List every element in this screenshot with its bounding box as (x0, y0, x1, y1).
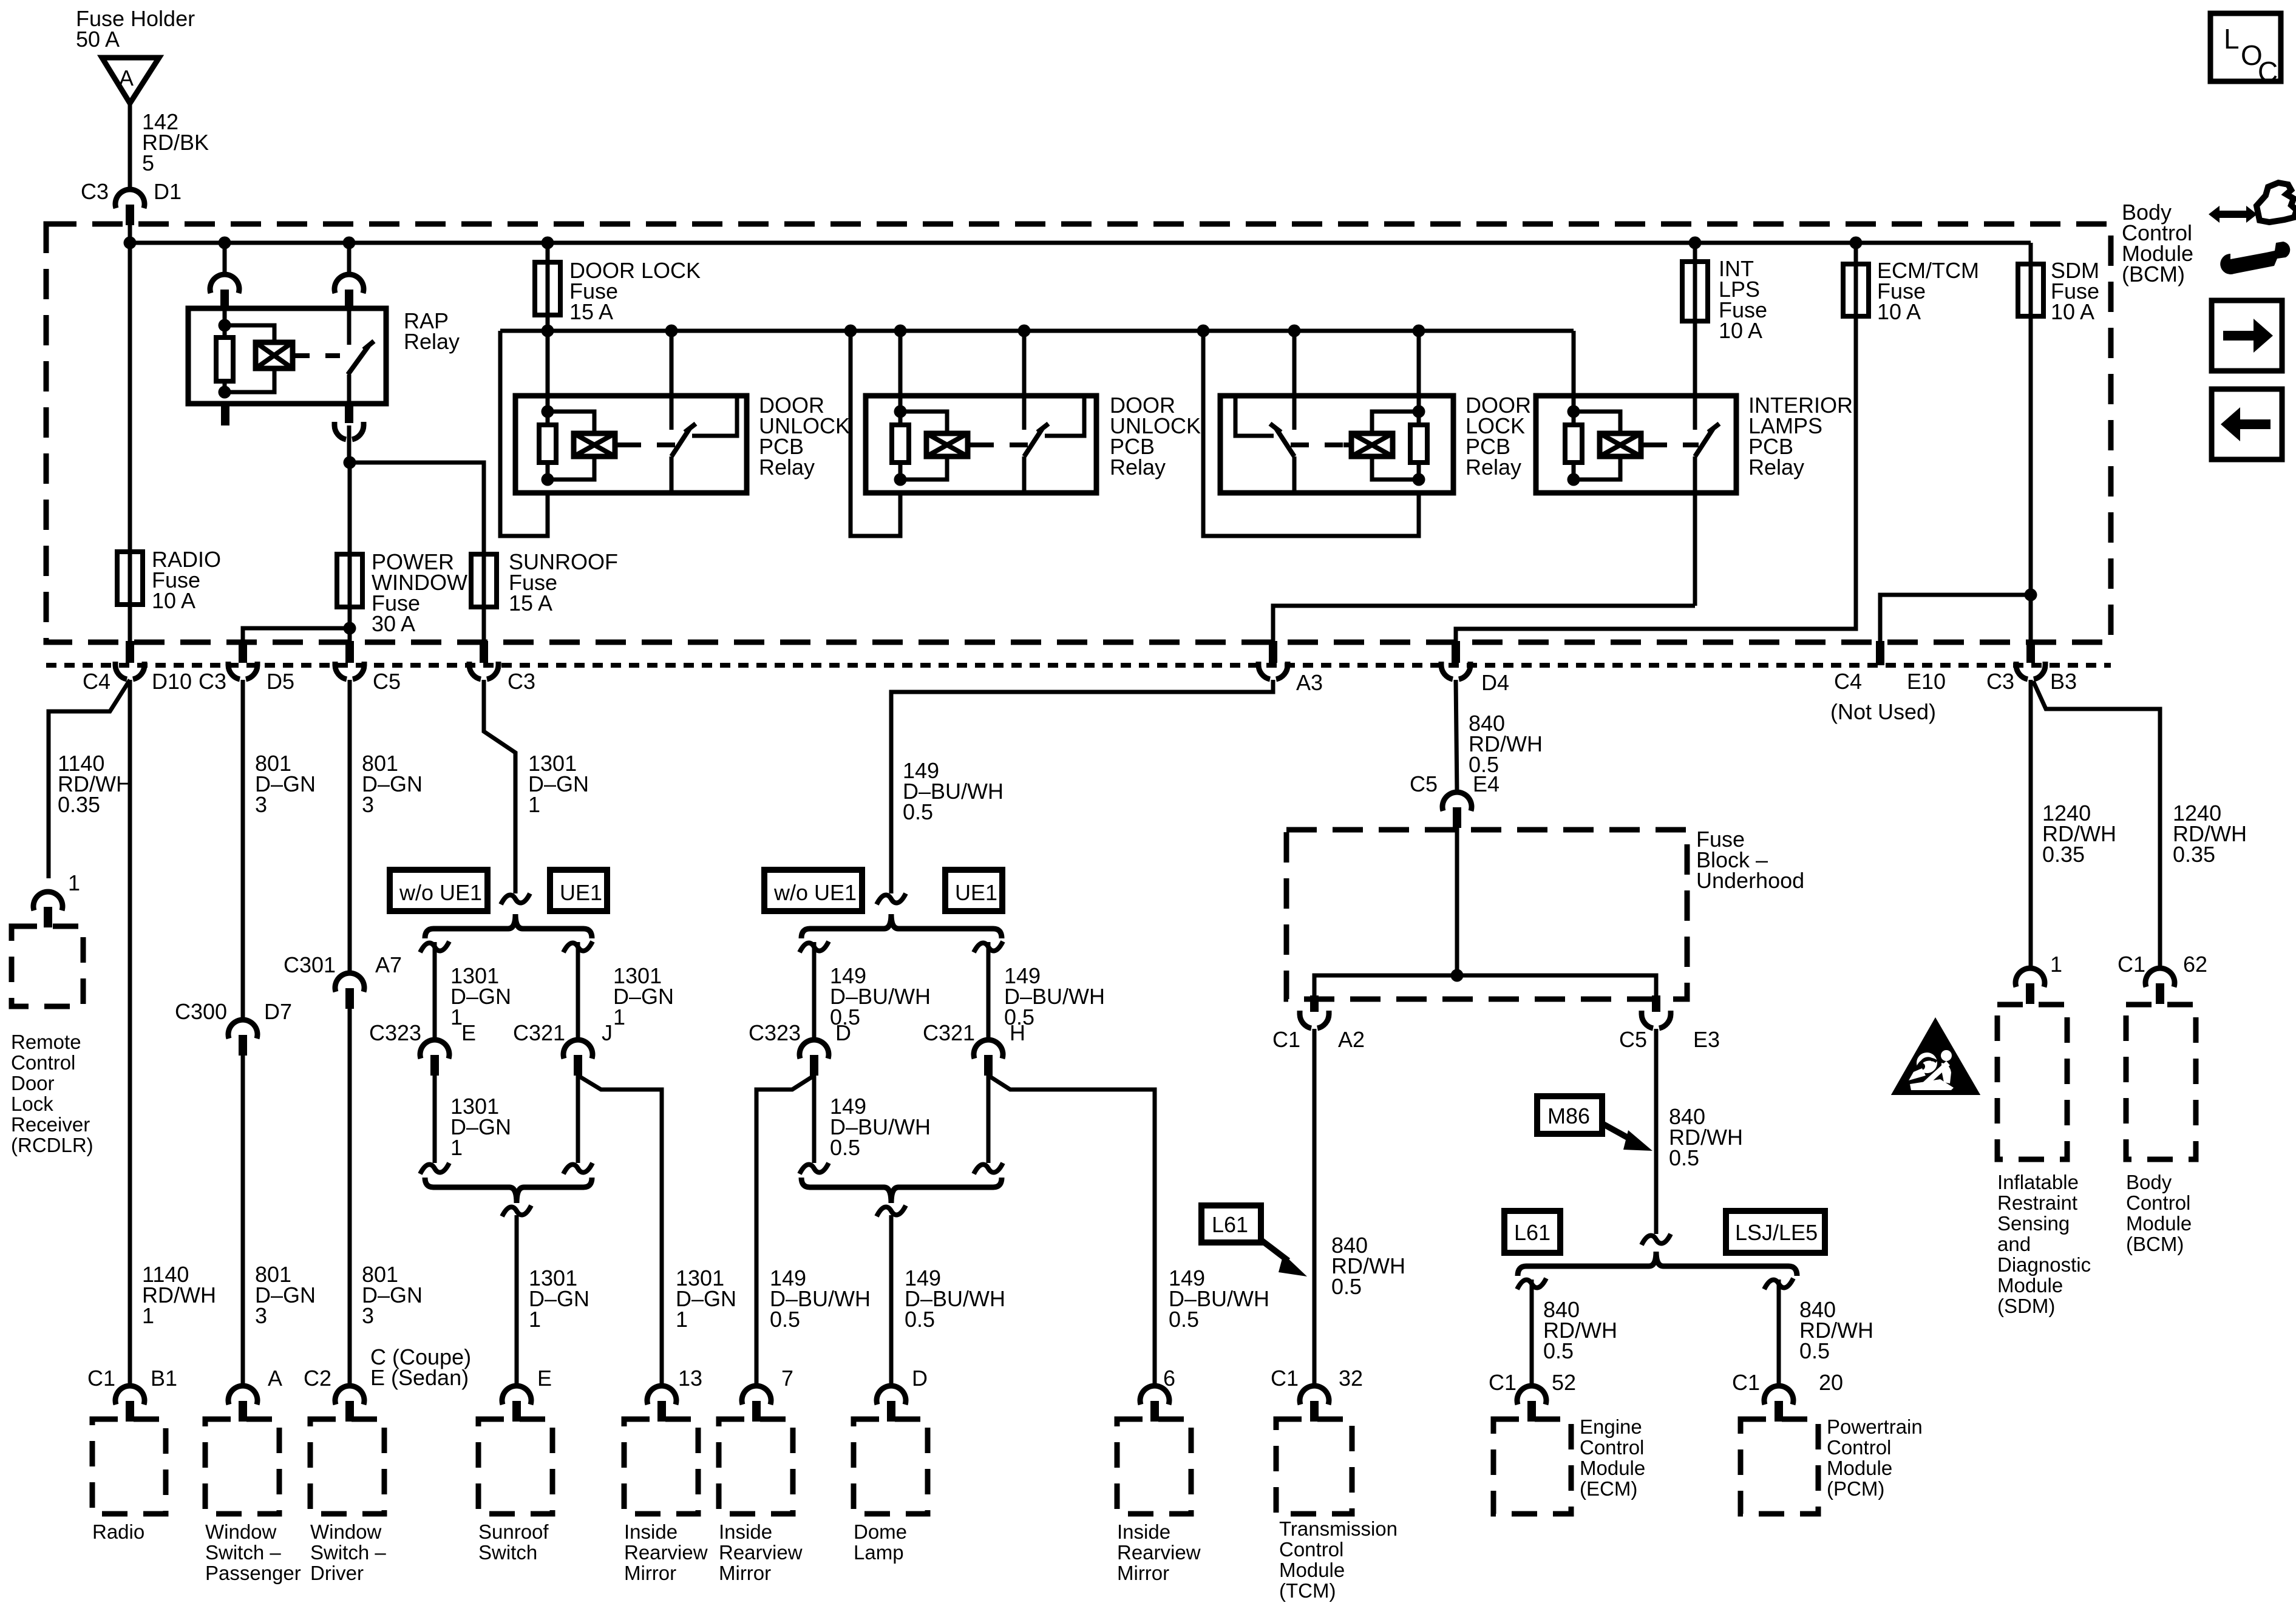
svg-text:1: 1 (450, 1135, 463, 1160)
connector Window (335, 1386, 364, 1405)
wire into RAP relay (223, 290, 227, 325)
back arrow box (2212, 389, 2282, 459)
svg-text:(TCM): (TCM) (1279, 1579, 1336, 1602)
svg-text:A2: A2 (1338, 1027, 1365, 1052)
POWER WINDOW fuse (337, 554, 362, 607)
break (1764, 1278, 1793, 1289)
svg-text:E: E (461, 1020, 476, 1045)
DOOR LOCK PCB relay 3 switch common (1292, 396, 1297, 430)
svg-text:Relay: Relay (404, 329, 460, 354)
DOOR UNLOCK PCB relay 2 coil top link (900, 412, 947, 433)
svg-text:30 A: 30 A (372, 611, 415, 636)
svg-text:62: 62 (2183, 952, 2207, 977)
wire bus1 to RAP coil connector (223, 243, 227, 275)
svg-text:E3: E3 (1693, 1027, 1720, 1052)
wire RADIO fuse to C4/D10 (128, 605, 132, 642)
break (877, 1205, 906, 1216)
svg-text:Driver: Driver (310, 1562, 364, 1584)
DOOR UNLOCK PCB relay 2 switch common (1022, 396, 1027, 430)
wire to sunroof switch (515, 1215, 519, 1386)
wire branch C323/D to mirror (756, 1076, 814, 1386)
svg-text:(PCM): (PCM) (1827, 1477, 1884, 1500)
bus2 end down to relay4 coil (1572, 331, 1576, 412)
DOOR LOCK PCB relay 3 switch output (1292, 456, 1297, 493)
svg-text:Remote: Remote (11, 1031, 81, 1053)
svg-text:C5: C5 (373, 669, 401, 694)
svg-text:C5: C5 (1410, 771, 1438, 796)
M86 arrow (1603, 1124, 1632, 1140)
svg-text:D4: D4 (1481, 670, 1509, 695)
svg-text:E10: E10 (1907, 669, 1946, 694)
svg-text:C321: C321 (923, 1020, 975, 1045)
svg-text:0.5: 0.5 (1331, 1274, 1362, 1299)
connector C321/J (563, 1040, 593, 1059)
wire bus1 to RADIO fuse (128, 243, 132, 552)
svg-text:Control: Control (11, 1051, 75, 1074)
svg-text:1: 1 (529, 1307, 541, 1332)
relay4 coil end (1572, 491, 1576, 495)
junction bus2 x=1401 (844, 325, 857, 337)
svg-text:C3: C3 (1986, 669, 2014, 694)
L61 arrow (1260, 1239, 1288, 1261)
DOOR UNLOCK PCB relay 2 coil top junction (894, 405, 907, 418)
svg-text:Rearview: Rearview (719, 1541, 803, 1564)
TCM box (1276, 1419, 1352, 1514)
svg-text:A: A (119, 66, 134, 90)
svg-text:Module: Module (1580, 1457, 1645, 1479)
connector TCM C1/32 (1300, 1386, 1329, 1405)
wire C1/A2 to TCM (1313, 1029, 1317, 1386)
wire into fuse block (1455, 807, 1459, 975)
wire SDM fuse to C3/B3 (2029, 316, 2033, 642)
wire w/o UE1 branch (433, 942, 437, 1040)
svg-text:A3: A3 (1296, 670, 1323, 695)
DOOR LOCK PCB relay 3 switch tick (1270, 424, 1281, 432)
svg-text:(SDM): (SDM) (1997, 1295, 2055, 1317)
wire DOOR LOCK fuse to relay1 coil (546, 315, 550, 412)
INTERIOR LAMPS PCB relay 4 coil resistor (1565, 425, 1582, 463)
connector BCM C1/62 (2145, 968, 2175, 987)
DOOR UNLOCK PCB relay 2 coil-switch dashed link (968, 442, 976, 447)
svg-text:C1: C1 (1732, 1370, 1760, 1395)
connector C3/D5 (239, 641, 247, 663)
svg-text:and: and (1997, 1233, 2031, 1255)
BCM dashed outline (46, 224, 2111, 642)
connector C301/A7 (335, 973, 364, 992)
svg-text:3: 3 (255, 1303, 267, 1328)
splice brace upper 2 (801, 914, 1002, 938)
junction bus2 x=902 (542, 325, 554, 337)
svg-text:Dome: Dome (854, 1520, 907, 1543)
svg-text:(ECM): (ECM) (1580, 1477, 1637, 1500)
RAP coil bottom junction (219, 386, 231, 399)
connector C300/D7 (228, 1020, 257, 1039)
break (502, 1205, 531, 1216)
connector PCM C1/20 (1764, 1386, 1793, 1405)
junction PW fuse split (344, 622, 356, 635)
svg-text:B1: B1 (151, 1366, 177, 1391)
relay2 coil return loop (851, 331, 900, 536)
svg-text:Sunroof: Sunroof (478, 1520, 549, 1543)
ECM box (1493, 1419, 1571, 1514)
splice break (501, 893, 530, 904)
svg-text:C300: C300 (175, 999, 227, 1024)
svg-text:Diagnostic: Diagnostic (1997, 1253, 2091, 1276)
connector C3/D1 (115, 189, 144, 208)
connector C5/E3 (1652, 995, 1660, 1012)
wire bus1 to RAP switch connector (347, 243, 352, 275)
DOOR LOCK PCB relay 3 coil bottom junction (1413, 473, 1425, 486)
wire C3/D5 down (241, 680, 245, 1020)
wire jog to C3/D5 (243, 628, 350, 642)
break (563, 1163, 593, 1174)
INTERIOR LAMPS PCB relay 4 switch tick (1708, 424, 1719, 432)
RAP relay box (188, 308, 386, 404)
svg-text:Control: Control (1580, 1436, 1644, 1459)
svg-text:(BCM): (BCM) (2126, 1233, 2184, 1255)
svg-text:3: 3 (255, 792, 267, 817)
BCM connector row dotted line (46, 663, 2111, 668)
svg-text:0.5: 0.5 (830, 1135, 860, 1160)
junction bus2 x=1982 (1197, 325, 1210, 337)
svg-text:Lock: Lock (11, 1093, 53, 1115)
car/service pictogram (2209, 206, 2257, 223)
svg-text:10 A: 10 A (1877, 299, 1921, 324)
svg-text:C3: C3 (508, 669, 535, 694)
connector Sunroof (502, 1386, 531, 1405)
DOOR UNLOCK PCB relay 2 switch hook to box top (1045, 396, 1084, 436)
wire B3 branch to BCM (2033, 681, 2160, 969)
SDM fuse (2018, 264, 2043, 316)
connector C4/D10 (126, 641, 134, 663)
wire relay4 output to A3 (1273, 606, 1695, 642)
svg-text:C3: C3 (81, 179, 109, 204)
DOOR UNLOCK PCB relay 1 switch output (670, 456, 674, 493)
option box LSJ/LE5 (1726, 1211, 1825, 1253)
svg-text:C1: C1 (1271, 1366, 1299, 1391)
wire to SUNROOF fuse (350, 463, 484, 554)
connector RCDLR pin 1 (33, 892, 63, 910)
svg-text:C1: C1 (2118, 952, 2145, 977)
wire C4/D10 to RCDLR (49, 680, 130, 878)
box Window Switch – Passenger (205, 1419, 279, 1514)
DOOR UNLOCK PCB relay 1 coil bottom junction (542, 473, 554, 486)
svg-text:Body: Body (2126, 1171, 2172, 1193)
wire bus2 to relay3 coil (1417, 331, 1421, 412)
svg-text:Mirror: Mirror (719, 1562, 771, 1584)
relay box INTERIOR LAMPS PCB relay 4 (1536, 396, 1736, 493)
break (563, 941, 593, 952)
connector C323/D (800, 1040, 829, 1059)
Fuse Block - Underhood box (1286, 830, 1687, 999)
svg-text:L61: L61 (1212, 1212, 1248, 1237)
PCM box (1741, 1419, 1818, 1514)
svg-text:Inflatable: Inflatable (1997, 1171, 2079, 1193)
connector C3 (sunroof) (480, 641, 488, 663)
INTERIOR LAMPS PCB relay 4 coil top junction (1567, 405, 1580, 418)
svg-text:E: E (537, 1366, 552, 1391)
wire below C323/E (433, 1055, 437, 1163)
svg-text:D5: D5 (267, 669, 294, 694)
svg-text:Inside: Inside (719, 1520, 772, 1543)
wire w/o UE1 branch (812, 942, 817, 1040)
svg-text:C301: C301 (284, 952, 336, 977)
connector C4/E10 stub (not used) (1876, 641, 1884, 665)
svg-text:Relay: Relay (1466, 455, 1521, 480)
svg-text:Transmission: Transmission (1279, 1517, 1398, 1540)
RAP switch output (347, 375, 352, 404)
break (800, 1163, 829, 1174)
wire bus2 to relay2 coil (898, 331, 903, 412)
DOOR LOCK PCB relay 3 switch blade (1276, 429, 1294, 456)
svg-text:C3: C3 (199, 669, 226, 694)
svg-text:Control: Control (2126, 1192, 2190, 1214)
INTERIOR LAMPS PCB relay 4 coil-switch dashed link (1641, 442, 1649, 447)
svg-text:A: A (268, 1366, 282, 1391)
relay3 coil return loop (1203, 331, 1419, 536)
wire RAP output down (347, 425, 352, 463)
svg-text:50 A: 50 A (76, 27, 120, 52)
svg-text:E (Sedan): E (Sedan) (370, 1365, 469, 1390)
svg-text:w/o UE1: w/o UE1 (773, 880, 857, 905)
svg-text:Powertrain: Powertrain (1827, 1415, 1923, 1438)
break (974, 941, 1003, 952)
svg-text:Receiver: Receiver (11, 1113, 90, 1136)
wire RAP switch common (347, 290, 352, 345)
DOOR LOCK PCB relay 3 coil-switch dashed link (1343, 442, 1351, 447)
junction bus2 x=1106 (665, 325, 678, 337)
INTERIOR LAMPS PCB relay 4 coil bottom link (1574, 456, 1620, 480)
connector C5 (345, 641, 354, 663)
svg-text:1: 1 (2050, 952, 2062, 977)
box Inside Rearview Mirror (624, 1419, 698, 1514)
svg-text:0.35: 0.35 (58, 792, 100, 817)
wire to PCM (1777, 1280, 1781, 1386)
option box UE1 (945, 870, 1002, 911)
box Radio (92, 1419, 166, 1514)
wire fuse holder to connector C3/D1 (128, 103, 132, 191)
wire into BCM (128, 205, 132, 243)
connector SDM pin 1 (2016, 968, 2045, 987)
junction RAP output split (344, 456, 356, 469)
svg-text:Sensing: Sensing (1997, 1212, 2070, 1235)
wire branch C321/H to mirror (988, 1076, 1155, 1386)
bus1 end down to SDM fuse (2029, 243, 2033, 264)
svg-text:LSJ/LE5: LSJ/LE5 (1735, 1220, 1818, 1245)
splice brace lower 1 (425, 1178, 592, 1203)
wire B3 to SDM (2029, 680, 2033, 969)
svg-text:Engine: Engine (1580, 1415, 1642, 1438)
svg-text:Lamp: Lamp (854, 1541, 904, 1564)
svg-text:1: 1 (613, 1005, 625, 1029)
svg-text:52: 52 (1552, 1370, 1576, 1395)
DOOR LOCK PCB relay 3 coil top link (1372, 412, 1419, 433)
junction fuse block (1451, 969, 1464, 982)
wire C4/D10 to Radio (128, 680, 132, 1386)
RAP coil bottom link (225, 368, 274, 392)
RAP coil stub below box (221, 404, 229, 425)
break (420, 1163, 449, 1174)
DOOR LOCK PCB relay 3 coil bottom link (1372, 456, 1419, 480)
splice brace upper 1 (425, 914, 592, 938)
wire branch C321/J to mirror (578, 1076, 662, 1386)
wire bus2 to relay1 switch (670, 331, 674, 396)
svg-text:1: 1 (528, 792, 540, 817)
svg-text:Module: Module (2126, 1212, 2192, 1235)
svg-text:C1: C1 (87, 1366, 115, 1391)
box Inside Rearview Mirror (1117, 1419, 1191, 1514)
connector C321/H (974, 1040, 1003, 1059)
connector Dome (877, 1386, 906, 1405)
DOOR UNLOCK PCB relay 1 coil resistor (539, 425, 556, 463)
wire below C321/J (576, 1055, 580, 1163)
svg-text:0.35: 0.35 (2042, 842, 2085, 867)
wire to ECM (1530, 1280, 1534, 1386)
RAP coil (256, 342, 293, 368)
junction bus2 x=1483 (894, 325, 907, 337)
svg-text:Mirror: Mirror (1117, 1562, 1169, 1584)
svg-text:w/o UE1: w/o UE1 (399, 880, 482, 905)
INTERIOR LAMPS PCB relay 4 coil (1600, 433, 1641, 456)
svg-text:C: C (2258, 56, 2278, 87)
connector A3 (1269, 641, 1277, 663)
wire bus2 to relay2 switch (1022, 331, 1027, 396)
junction bus2 x=2337 (1413, 325, 1425, 337)
DOOR UNLOCK PCB relay 2 coil (926, 433, 968, 456)
svg-text:Rearview: Rearview (1117, 1541, 1201, 1564)
wire to POWER WINDOW fuse (348, 463, 352, 554)
svg-text:C323: C323 (749, 1020, 801, 1045)
RCDLR box (12, 926, 83, 1006)
DOOR UNLOCK PCB relay 1 switch common (670, 396, 674, 430)
wire ECM/TCM fuse to D4 (1456, 316, 1856, 642)
DOOR UNLOCK PCB relay 1 coil top junction (542, 405, 554, 418)
svg-text:UE1: UE1 (955, 880, 997, 905)
junction SDM wire / E10 branch (2025, 589, 2037, 602)
svg-text:Window: Window (205, 1520, 277, 1543)
connector D4 (1452, 641, 1460, 663)
svg-text:0.35: 0.35 (2173, 842, 2215, 867)
svg-text:M86: M86 (1547, 1103, 1590, 1128)
svg-text:Radio: Radio (92, 1520, 144, 1543)
wire C300 to passenger switch (241, 1035, 245, 1386)
svg-text:Relay: Relay (1110, 455, 1166, 480)
RAP coil-switch dashed link (293, 353, 340, 358)
svg-text:D1: D1 (154, 179, 182, 204)
DOOR UNLOCK PCB relay 2 switch blade (1024, 429, 1042, 456)
bus2 relay feed line (500, 329, 1574, 333)
RAP resistor (216, 337, 233, 381)
splice break (877, 893, 906, 904)
connector C3/B3 (2026, 641, 2035, 663)
break (420, 941, 449, 952)
connector Inside (1140, 1386, 1169, 1405)
svg-text:20: 20 (1819, 1370, 1843, 1395)
wire bus1 to ECM/TCM fuse (1854, 243, 1858, 264)
svg-text:Door: Door (11, 1072, 55, 1094)
option box L61 (1201, 1205, 1261, 1242)
svg-text:Passenger: Passenger (205, 1562, 301, 1584)
wire bus1 to INT LPS fuse (1693, 243, 1697, 262)
DOOR UNLOCK PCB relay 1 coil (574, 433, 615, 456)
svg-text:(BCM): (BCM) (2122, 262, 2185, 286)
svg-text:(Not Used): (Not Used) (1830, 699, 1936, 724)
svg-text:Module: Module (1279, 1559, 1345, 1581)
INTERIOR LAMPS PCB relay 4 switch common (1693, 396, 1697, 430)
svg-text:Inside: Inside (1117, 1520, 1170, 1543)
svg-text:C323: C323 (369, 1020, 421, 1045)
wire branch to E10 (not used) (1880, 595, 2031, 642)
relay box DOOR UNLOCK PCB relay 1 (515, 396, 747, 493)
svg-text:Switch –: Switch – (205, 1541, 281, 1564)
connector Window (228, 1386, 257, 1405)
svg-text:Restraint: Restraint (1997, 1192, 2077, 1214)
fuse block internal wire (1314, 975, 1656, 999)
DOOR UNLOCK PCB relay 1 switch blade (671, 429, 690, 456)
svg-text:L61: L61 (1514, 1220, 1550, 1245)
wire D4 down (1456, 680, 1457, 793)
relay4 switch output down (1693, 493, 1697, 606)
wire SUNROOF fuse to C3 (482, 607, 486, 642)
DOOR UNLOCK PCB relay 1 switch hook to box top (692, 396, 737, 436)
option box M86 (1537, 1096, 1602, 1134)
wire INT LPS fuse to relay4 switch (1693, 321, 1697, 396)
svg-text:3: 3 (362, 792, 374, 817)
connector C323/E (420, 1040, 449, 1059)
SDM box (1997, 1005, 2067, 1159)
splice brace L61/LSJ (1518, 1252, 1797, 1276)
DOOR UNLOCK PCB relay 2 coil resistor (892, 425, 909, 463)
svg-text:0.5: 0.5 (905, 1307, 935, 1332)
option box UE1 (550, 870, 607, 911)
junction bus1 x=3057 (1850, 237, 1863, 249)
wire below C323/D (812, 1055, 817, 1163)
svg-text:L: L (2224, 23, 2240, 55)
RAP coil top link (225, 325, 274, 342)
relay box DOOR UNLOCK PCB relay 2 (866, 396, 1096, 493)
break (974, 1163, 1003, 1174)
box Sunroof Switch (478, 1419, 552, 1514)
option box w/o UE1 (390, 870, 487, 911)
wire C3 to splice (484, 680, 515, 893)
DOOR UNLOCK PCB relay 1 switch tick (685, 424, 696, 432)
INTERIOR LAMPS PCB relay 4 coil top link (1574, 412, 1620, 433)
svg-text:Window: Window (310, 1520, 382, 1543)
svg-text:0.5: 0.5 (770, 1307, 800, 1332)
svg-text:D: D (835, 1020, 851, 1045)
SUNROOF fuse (471, 554, 497, 607)
svg-text:Relay: Relay (1748, 455, 1804, 480)
svg-text:C321: C321 (513, 1020, 565, 1045)
svg-text:Switch –: Switch – (310, 1541, 386, 1564)
svg-text:13: 13 (678, 1366, 702, 1391)
junction bus2 x=2132 (1288, 325, 1301, 337)
SIR caution triangle (1894, 1021, 1977, 1093)
in-line connector RAP switch (335, 274, 364, 293)
box Inside Rearview Mirror (719, 1419, 793, 1514)
INTERIOR LAMPS PCB relay 4 switch output (1693, 456, 1697, 493)
svg-text:1: 1 (676, 1307, 688, 1332)
DOOR LOCK PCB relay 3 switch hook to box top (1235, 396, 1274, 436)
svg-text:10 A: 10 A (152, 588, 195, 613)
relay box DOOR LOCK PCB relay 3 (1220, 396, 1453, 493)
wire bus2 to relay3 switch (1292, 331, 1297, 396)
box Dome Lamp (854, 1419, 928, 1514)
bus1 feed line (130, 241, 2031, 245)
connector Inside (647, 1386, 676, 1405)
INTERIOR LAMPS PCB relay 4 switch blade (1695, 429, 1713, 456)
svg-text:15 A: 15 A (509, 591, 552, 615)
